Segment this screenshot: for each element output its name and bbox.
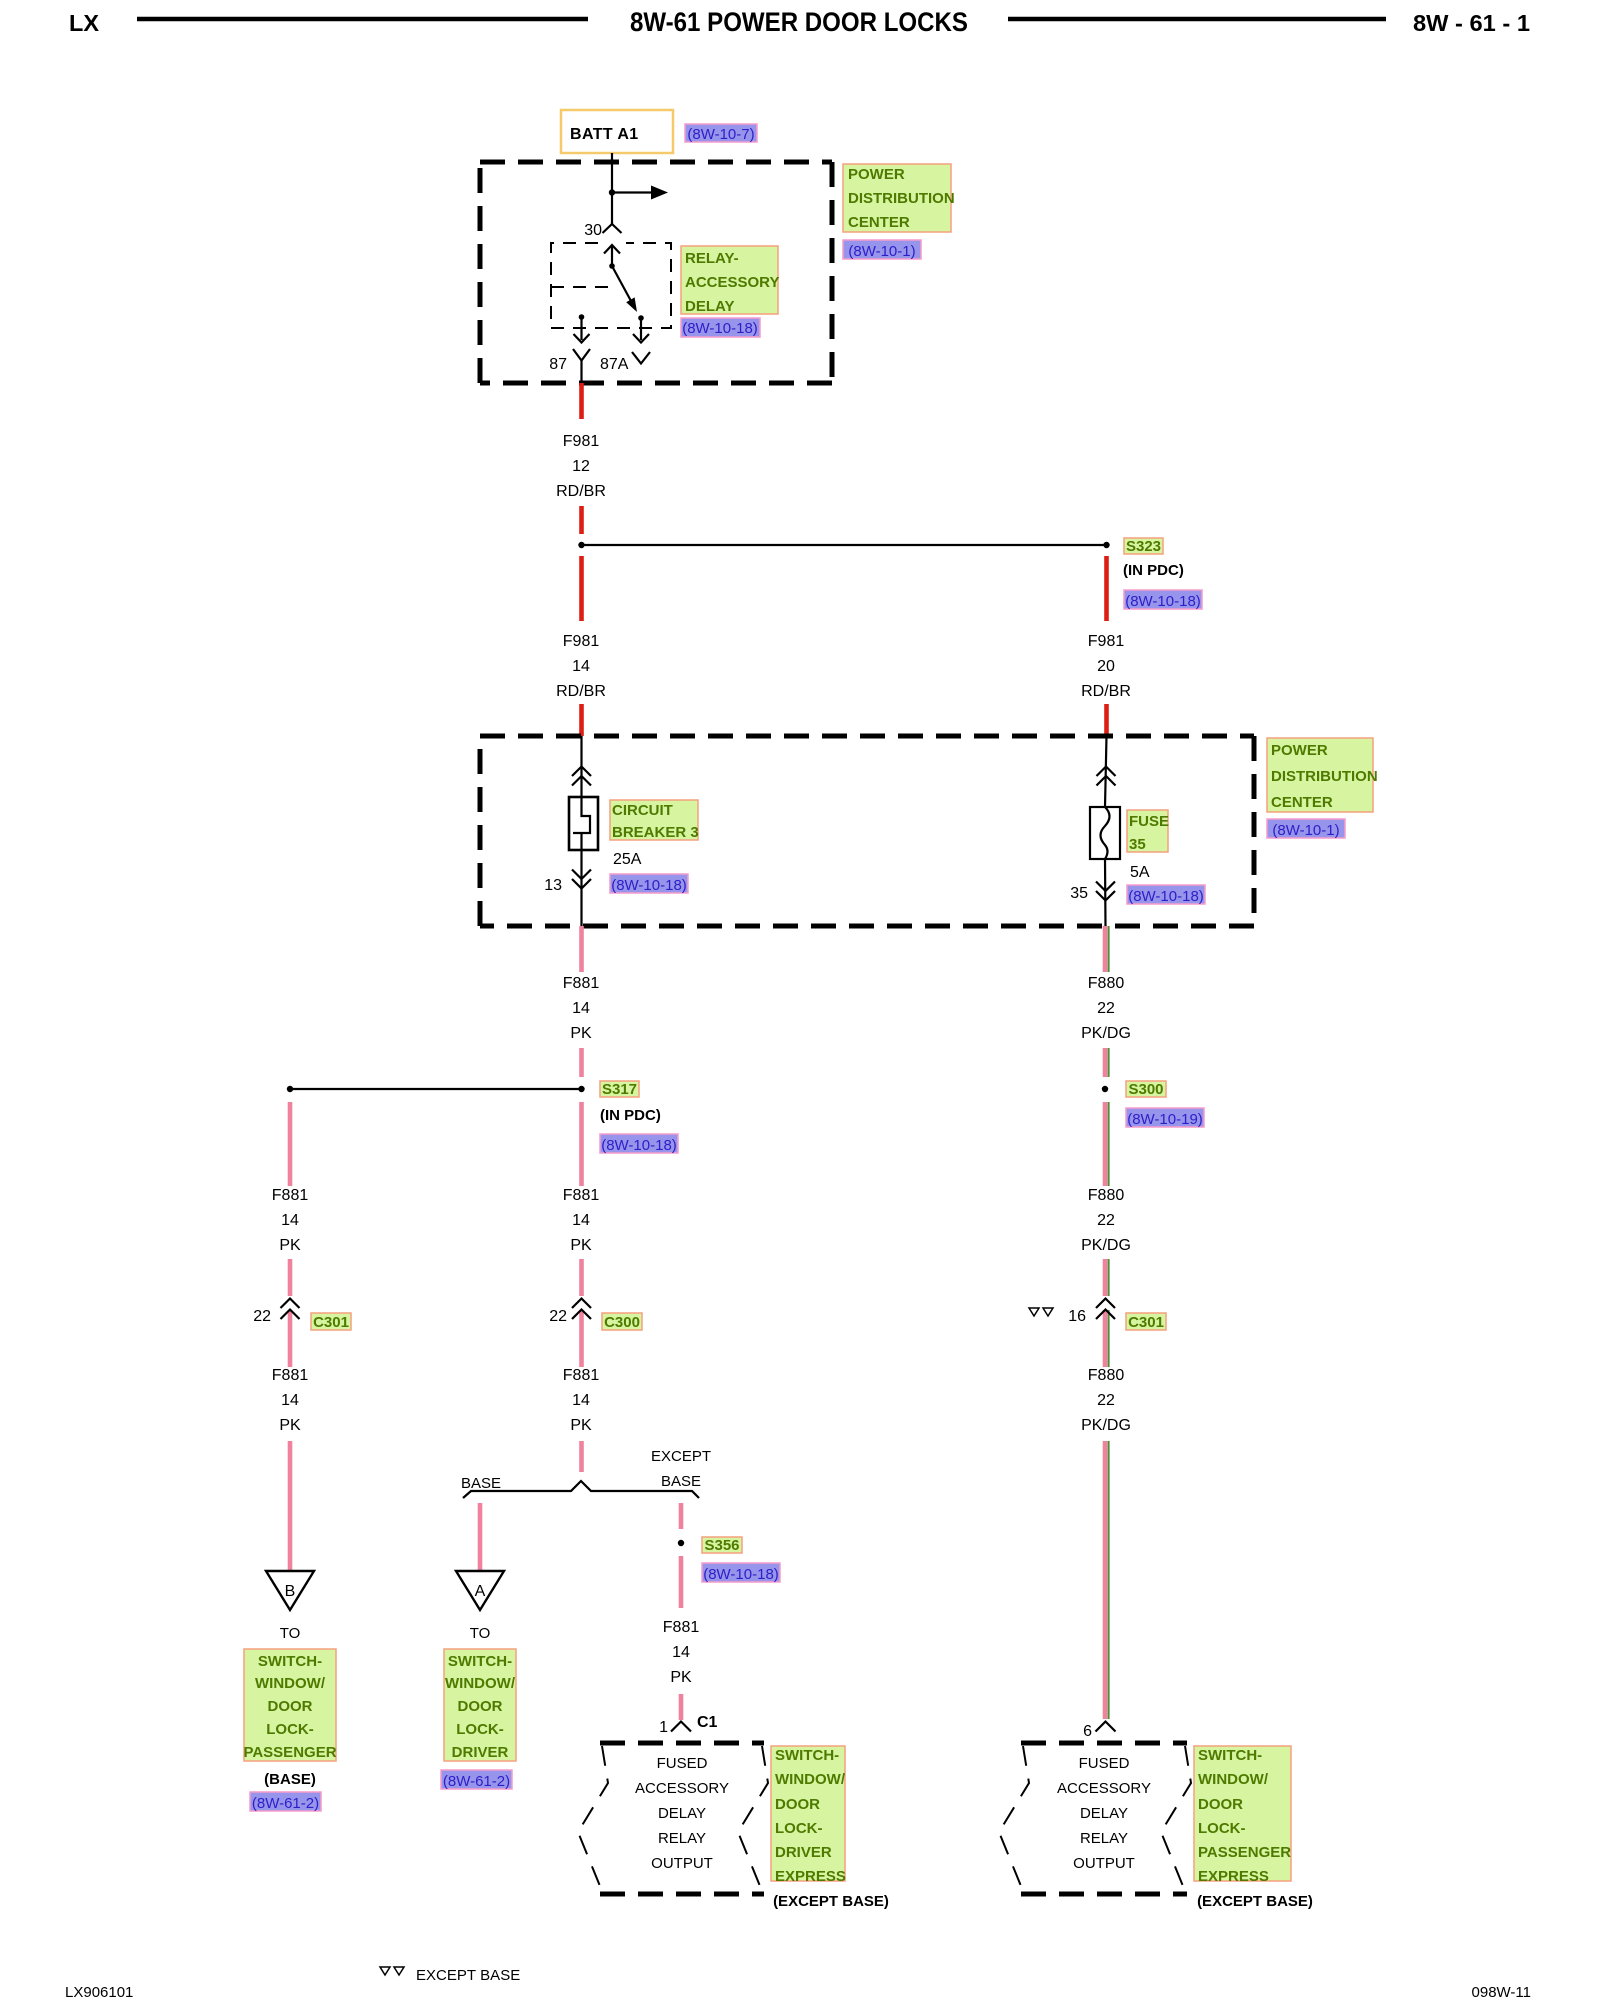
- svg-text:DISTRIBUTION: DISTRIBUTION: [848, 190, 955, 207]
- svg-text:098W-11: 098W-11: [1472, 1984, 1531, 2000]
- label F880 22 PK/DG right lower: [1081, 1367, 1131, 1434]
- svg-text:DOOR: DOOR: [1198, 1796, 1243, 1813]
- svg-text:14: 14: [281, 1212, 299, 1229]
- svg-text:F881: F881: [272, 1187, 309, 1204]
- label C300: [602, 1313, 642, 1331]
- connector chevrons at fuse output: [1096, 882, 1115, 901]
- footer legend marks EXCEPT BASE: [380, 1967, 520, 1984]
- svg-text:22: 22: [1097, 1392, 1115, 1409]
- wire F881 pink below PDC: [579, 926, 584, 972]
- svg-text:14: 14: [281, 1392, 299, 1409]
- label (8W-10-1): [843, 240, 921, 260]
- connector half (female) at pin 87: [573, 349, 590, 383]
- fuse 35: [1090, 807, 1120, 859]
- connector half (female) at pin 87A: [632, 352, 650, 364]
- header rule left: [137, 17, 588, 22]
- pin 35: [1070, 885, 1088, 902]
- label 5A: [1130, 864, 1150, 881]
- svg-text:SWITCH-: SWITCH-: [1198, 1747, 1262, 1764]
- svg-text:(8W-10-1): (8W-10-1): [848, 243, 915, 260]
- svg-text:(BASE): (BASE): [264, 1771, 316, 1788]
- label RELAY-ACCESSORY DELAY: [681, 246, 779, 315]
- label F881 14 PK mid: [563, 1187, 600, 1254]
- power distribution center box 2 (dashed): [480, 736, 1254, 926]
- connector chevrons at breaker input: [572, 767, 591, 786]
- svg-text:C1: C1: [697, 1714, 718, 1731]
- svg-text:WINDOW/: WINDOW/: [775, 1771, 846, 1788]
- wire pink left above C301: [288, 1259, 293, 1296]
- svg-text:PK/DG: PK/DG: [1081, 1025, 1131, 1042]
- wire F981 12 RD/BR (red): [579, 383, 584, 419]
- svg-text:PK: PK: [570, 1237, 592, 1254]
- connector C300 (in-line): [572, 1299, 591, 1320]
- svg-text:LOCK-: LOCK-: [1198, 1820, 1246, 1837]
- svg-text:POWER: POWER: [1271, 742, 1328, 759]
- svg-text:PASSENGER: PASSENGER: [243, 1744, 336, 1761]
- label CIRCUIT BREAKER 3: [610, 800, 699, 841]
- svg-text:14: 14: [572, 1392, 590, 1409]
- footer drawing number LX906101: [65, 1984, 133, 2000]
- splice S323: [578, 542, 1109, 548]
- svg-text:PASSENGER: PASSENGER: [1198, 1844, 1291, 1861]
- svg-text:(EXCEPT BASE): (EXCEPT BASE): [1197, 1893, 1313, 1910]
- svg-text:14: 14: [572, 658, 590, 675]
- connector chevrons at breaker output: [572, 870, 591, 889]
- label (8W-61-2) A: [441, 1770, 512, 1790]
- legend marks at C301 right: [1029, 1308, 1053, 1316]
- relay movable contact arm: [612, 266, 637, 312]
- label S317: [600, 1081, 639, 1098]
- relay terminal 87A (arrow down): [633, 315, 649, 342]
- wire from BATT A1 down: [611, 153, 613, 224]
- label SWITCH-WINDOW/DOOR LOCK-PASSENGER: [243, 1649, 336, 1761]
- svg-text:F981: F981: [563, 433, 600, 450]
- svg-text:RELAY: RELAY: [658, 1830, 706, 1847]
- svg-text:12: 12: [572, 458, 590, 475]
- svg-text:WINDOW/: WINDOW/: [255, 1675, 326, 1692]
- wire into circuit breaker: [580, 736, 582, 797]
- svg-text:F981: F981: [563, 633, 600, 650]
- label F881 14 PK left lower: [272, 1367, 309, 1434]
- connector C1 pin 1: [659, 1714, 717, 1736]
- wire breaker to pin 13: [580, 850, 582, 926]
- svg-text:DRIVER: DRIVER: [775, 1844, 832, 1861]
- svg-text:DRIVER: DRIVER: [452, 1744, 509, 1761]
- label (8W-10-1) 2: [1267, 819, 1345, 839]
- battery feed box BATT A1: [561, 110, 673, 153]
- label (8W-61-2) B: [250, 1792, 321, 1812]
- svg-text:WINDOW/: WINDOW/: [445, 1675, 516, 1692]
- svg-text:F880: F880: [1088, 1367, 1125, 1384]
- svg-text:20: 20: [1097, 658, 1115, 675]
- svg-text:PK: PK: [279, 1237, 301, 1254]
- svg-text:35: 35: [1070, 885, 1088, 902]
- wire fuse to pin 35: [1104, 859, 1107, 926]
- svg-text:S323: S323: [1126, 538, 1161, 555]
- svg-text:1: 1: [659, 1719, 668, 1736]
- pin 13: [544, 877, 562, 894]
- header title 8W-61 POWER DOOR LOCKS: [630, 7, 968, 37]
- wire pink left to triangle B: [288, 1441, 293, 1570]
- wire F981 (red) above splice: [579, 506, 584, 534]
- svg-text:(8W-10-19): (8W-10-19): [1127, 1111, 1203, 1128]
- svg-text:TO: TO: [280, 1625, 301, 1642]
- svg-text:S317: S317: [602, 1081, 637, 1098]
- svg-text:POWER: POWER: [848, 166, 905, 183]
- wire pink left below C301: [288, 1310, 293, 1367]
- svg-text:OUTPUT: OUTPUT: [651, 1855, 713, 1872]
- svg-text:DOOR: DOOR: [458, 1698, 503, 1715]
- wire F981 14 (red) left leg: [579, 556, 584, 621]
- svg-text:F880: F880: [1088, 1187, 1125, 1204]
- relay terminal 87 (arrow down): [574, 314, 590, 342]
- svg-text:F881: F881: [563, 975, 600, 992]
- svg-text:5A: 5A: [1130, 864, 1150, 881]
- off-page connector A: [456, 1571, 504, 1610]
- svg-text:CENTER: CENTER: [1271, 794, 1333, 811]
- wire pink BASE branch: [478, 1503, 483, 1570]
- label (8W-10-18) S317: [600, 1134, 678, 1154]
- pin 22 at C300: [549, 1308, 567, 1325]
- label (8W-10-18) S356: [702, 1563, 780, 1583]
- svg-text:RD/BR: RD/BR: [556, 483, 606, 500]
- svg-text:RELAY-: RELAY-: [685, 250, 739, 267]
- label (IN PDC) S317: [600, 1107, 661, 1124]
- svg-text:LOCK-: LOCK-: [266, 1721, 314, 1738]
- svg-text:FUSED: FUSED: [1079, 1755, 1130, 1772]
- pin 87: [549, 356, 567, 373]
- svg-text:F881: F881: [563, 1367, 600, 1384]
- svg-text:13: 13: [544, 877, 562, 894]
- svg-text:14: 14: [672, 1644, 690, 1661]
- connector half (male) at pin 30: [603, 224, 622, 233]
- svg-text:TO: TO: [470, 1625, 491, 1642]
- wire pink EXCEPT BASE branch: [679, 1503, 684, 1529]
- splice S300: [1102, 1086, 1108, 1092]
- svg-text:C300: C300: [604, 1314, 640, 1331]
- svg-text:PK: PK: [670, 1669, 692, 1686]
- svg-text:87: 87: [549, 356, 567, 373]
- label F880 22 PK/DG right: [1081, 1187, 1131, 1254]
- relay-accessory delay box (dashed): [551, 243, 671, 328]
- label F881 14 PK: [563, 975, 600, 1042]
- svg-text:PK: PK: [570, 1417, 592, 1434]
- svg-text:BREAKER 3: BREAKER 3: [612, 824, 699, 841]
- svg-text:(8W-10-7): (8W-10-7): [687, 126, 754, 143]
- svg-text:S300: S300: [1128, 1081, 1163, 1098]
- label (8W-10-7): [685, 124, 757, 143]
- svg-text:OUTPUT: OUTPUT: [1073, 1855, 1135, 1872]
- svg-text:6: 6: [1083, 1723, 1092, 1740]
- wire pink mid leg from S317: [579, 1102, 584, 1186]
- svg-text:FUSED: FUSED: [657, 1755, 708, 1772]
- svg-text:EXCEPT BASE: EXCEPT BASE: [416, 1967, 520, 1984]
- svg-text:B: B: [285, 1583, 296, 1600]
- label (BASE): [264, 1771, 316, 1788]
- label FUSE 35: [1127, 810, 1169, 853]
- off-page connector B: [266, 1571, 314, 1610]
- label (8W-10-18) fuse: [1127, 885, 1205, 905]
- svg-text:CENTER: CENTER: [848, 214, 910, 231]
- svg-text:35: 35: [1129, 836, 1146, 853]
- svg-text:(EXCEPT BASE): (EXCEPT BASE): [773, 1893, 889, 1910]
- label F881 14 PK at C1: [663, 1619, 700, 1686]
- pin 22 at C301 left: [253, 1308, 271, 1325]
- svg-text:RELAY: RELAY: [1080, 1830, 1128, 1847]
- svg-text:EXCEPT: EXCEPT: [651, 1448, 711, 1465]
- label TO (A): [470, 1625, 491, 1642]
- wire pink above S317: [579, 1048, 584, 1077]
- svg-text:F981: F981: [1088, 633, 1125, 650]
- label (8W-10-18) breaker: [610, 874, 688, 894]
- header rule right: [1008, 17, 1386, 22]
- component box FUSED ACCESSORY DELAY RELAY OUTPUT (passenger express): [999, 1743, 1191, 1894]
- svg-text:EXPRESS: EXPRESS: [775, 1868, 846, 1885]
- label (8W-10-18) S323: [1124, 590, 1202, 610]
- svg-text:SWITCH-: SWITCH-: [448, 1653, 512, 1670]
- arrow to other circuits: [612, 186, 668, 200]
- label C301 right: [1126, 1313, 1166, 1331]
- svg-text:DOOR: DOOR: [268, 1698, 313, 1715]
- label (EXCEPT BASE) driver: [773, 1893, 889, 1910]
- label S323: [1124, 538, 1163, 555]
- svg-text:F881: F881: [663, 1619, 700, 1636]
- label S356: [702, 1537, 742, 1554]
- label F981 14 RD/BR: [556, 633, 606, 700]
- svg-text:DELAY: DELAY: [658, 1805, 706, 1822]
- wire pink below S356: [679, 1556, 684, 1608]
- svg-text:25A: 25A: [613, 851, 642, 868]
- label S300: [1126, 1081, 1166, 1098]
- wire pink mid above split: [579, 1441, 584, 1472]
- pin 16 at C301 right: [1068, 1308, 1086, 1325]
- wire into fuse 35: [1105, 736, 1107, 807]
- svg-text:FUSE: FUSE: [1129, 813, 1169, 830]
- header page number 8W - 61 - 1: [1413, 10, 1530, 36]
- svg-text:RD/BR: RD/BR: [1081, 683, 1131, 700]
- svg-text:SWITCH-: SWITCH-: [258, 1653, 322, 1670]
- svg-text:DELAY: DELAY: [1080, 1805, 1128, 1822]
- svg-text:14: 14: [572, 1212, 590, 1229]
- connector pin 6: [1083, 1722, 1115, 1741]
- svg-text:16: 16: [1068, 1308, 1086, 1325]
- footer sheet number 098W-11: [1472, 1984, 1531, 2000]
- label F881 14 PK mid lower: [563, 1367, 600, 1434]
- pin 30: [584, 222, 602, 239]
- wire red into PDC left: [579, 704, 584, 736]
- svg-text:ACCESSORY: ACCESSORY: [685, 274, 779, 291]
- svg-text:S356: S356: [704, 1537, 739, 1554]
- label TO (B): [280, 1625, 301, 1642]
- svg-text:PK/DG: PK/DG: [1081, 1417, 1131, 1434]
- branch bracket BASE / EXCEPT BASE: [463, 1481, 699, 1498]
- component box FUSED ACCESSORY DELAY RELAY OUTPUT (driver express): [578, 1743, 768, 1894]
- svg-text:(8W-10-18): (8W-10-18): [703, 1566, 779, 1583]
- svg-text:(8W-10-18): (8W-10-18): [682, 320, 758, 337]
- wire pink mid below C300: [579, 1310, 584, 1367]
- svg-text:SWITCH-: SWITCH-: [775, 1747, 839, 1764]
- label (IN PDC) S323: [1123, 562, 1184, 579]
- circuit breaker CB3: [569, 797, 598, 850]
- wire pink left leg from S317: [288, 1102, 293, 1186]
- svg-text:14: 14: [572, 1000, 590, 1017]
- connector C301 left (in-line): [281, 1299, 300, 1320]
- label SWITCH-WINDOW/DOOR LOCK-PASSENGER EXPRESS: [1194, 1746, 1291, 1885]
- svg-text:PK/DG: PK/DG: [1081, 1237, 1131, 1254]
- svg-text:ACCESSORY: ACCESSORY: [1057, 1780, 1151, 1797]
- svg-text:F881: F881: [272, 1367, 309, 1384]
- pin 87A: [600, 356, 629, 373]
- wire pink to C1: [679, 1694, 684, 1720]
- label F880 22 PK/DG: [1081, 975, 1131, 1042]
- svg-text:C301: C301: [1128, 1314, 1164, 1331]
- svg-text:PK: PK: [279, 1417, 301, 1434]
- wire PK/DG long run to pin 6: [1105, 1441, 1109, 1719]
- svg-text:22: 22: [549, 1308, 567, 1325]
- svg-text:87A: 87A: [600, 356, 629, 373]
- svg-text:22: 22: [1097, 1212, 1115, 1229]
- svg-text:CIRCUIT: CIRCUIT: [612, 802, 673, 819]
- svg-text:BATT A1: BATT A1: [570, 126, 639, 143]
- svg-text:(8W-10-18): (8W-10-18): [1128, 888, 1204, 905]
- svg-text:LOCK-: LOCK-: [456, 1721, 504, 1738]
- svg-text:8W - 61 - 1: 8W - 61 - 1: [1413, 10, 1530, 36]
- label SWITCH-WINDOW/DOOR LOCK-DRIVER EXPRESS: [771, 1746, 846, 1885]
- svg-text:A: A: [475, 1583, 486, 1600]
- svg-text:C301: C301: [313, 1314, 349, 1331]
- wire F880 pink/dark green below PDC: [1105, 926, 1109, 972]
- label F981 12 RD/BR: [556, 433, 606, 500]
- svg-text:BASE: BASE: [661, 1473, 701, 1490]
- label F881 14 PK left: [272, 1187, 309, 1254]
- label SWITCH-WINDOW/DOOR LOCK-DRIVER: [444, 1649, 516, 1761]
- power distribution center box (dashed): [480, 162, 832, 383]
- wire PK/DG above S300: [1105, 1048, 1109, 1077]
- connector C301 right (in-line): [1096, 1299, 1115, 1320]
- splice S317: [287, 1086, 585, 1092]
- svg-text:DOOR: DOOR: [775, 1796, 820, 1813]
- junction node on batt feed: [609, 189, 615, 195]
- svg-text:(8W-61-2): (8W-61-2): [252, 1795, 319, 1812]
- svg-text:ACCESSORY: ACCESSORY: [635, 1780, 729, 1797]
- svg-text:DELAY: DELAY: [685, 298, 734, 315]
- svg-text:F880: F880: [1088, 975, 1125, 992]
- wire red into PDC right: [1104, 704, 1109, 736]
- wire PK/DG above C301 right: [1105, 1259, 1109, 1296]
- svg-text:LX: LX: [69, 10, 100, 36]
- label EXCEPT BASE: [651, 1448, 711, 1490]
- svg-text:EXPRESS: EXPRESS: [1198, 1868, 1269, 1885]
- connector chevrons at fuse input: [1097, 767, 1116, 786]
- svg-text:(IN PDC): (IN PDC): [1123, 562, 1184, 579]
- label POWER DISTRIBUTION CENTER: [843, 164, 955, 232]
- svg-text:(8W-10-18): (8W-10-18): [601, 1137, 677, 1154]
- svg-text:(8W-10-18): (8W-10-18): [611, 877, 687, 894]
- label POWER DISTRIBUTION CENTER 2: [1267, 738, 1378, 812]
- svg-text:30: 30: [584, 222, 602, 239]
- relay fixed contact 30 (arrow up): [604, 245, 620, 269]
- label BASE: [461, 1475, 501, 1492]
- label C301 left: [311, 1313, 351, 1331]
- wire pink mid above C300: [579, 1259, 584, 1296]
- splice S356: [678, 1540, 684, 1546]
- label (8W-10-19) S300: [1126, 1108, 1204, 1128]
- wire PK/DG from S300: [1105, 1102, 1109, 1186]
- svg-text:(IN PDC): (IN PDC): [600, 1107, 661, 1124]
- label (EXCEPT BASE) passenger: [1197, 1893, 1313, 1910]
- label 25A: [613, 851, 642, 868]
- label (8W-10-18) relay: [681, 318, 760, 337]
- wire PK/DG below C301 right: [1105, 1310, 1109, 1367]
- svg-text:LX906101: LX906101: [65, 1984, 133, 2000]
- header title LX: [69, 10, 100, 36]
- svg-text:22: 22: [253, 1308, 271, 1325]
- svg-text:22: 22: [1097, 1000, 1115, 1017]
- svg-text:RD/BR: RD/BR: [556, 683, 606, 700]
- svg-text:F881: F881: [563, 1187, 600, 1204]
- label F981 20 RD/BR: [1081, 633, 1131, 700]
- svg-text:(8W-10-1): (8W-10-1): [1272, 822, 1339, 839]
- svg-text:LOCK-: LOCK-: [775, 1820, 823, 1837]
- svg-text:WINDOW/: WINDOW/: [1198, 1771, 1269, 1788]
- svg-text:(8W-61-2): (8W-61-2): [443, 1773, 510, 1790]
- svg-text:8W-61 POWER DOOR LOCKS: 8W-61 POWER DOOR LOCKS: [630, 7, 968, 37]
- wire F981 20 (red) right leg: [1104, 556, 1109, 621]
- svg-text:DISTRIBUTION: DISTRIBUTION: [1271, 768, 1378, 785]
- svg-text:PK: PK: [570, 1025, 592, 1042]
- svg-text:(8W-10-18): (8W-10-18): [1125, 593, 1201, 610]
- svg-text:BASE: BASE: [461, 1475, 501, 1492]
